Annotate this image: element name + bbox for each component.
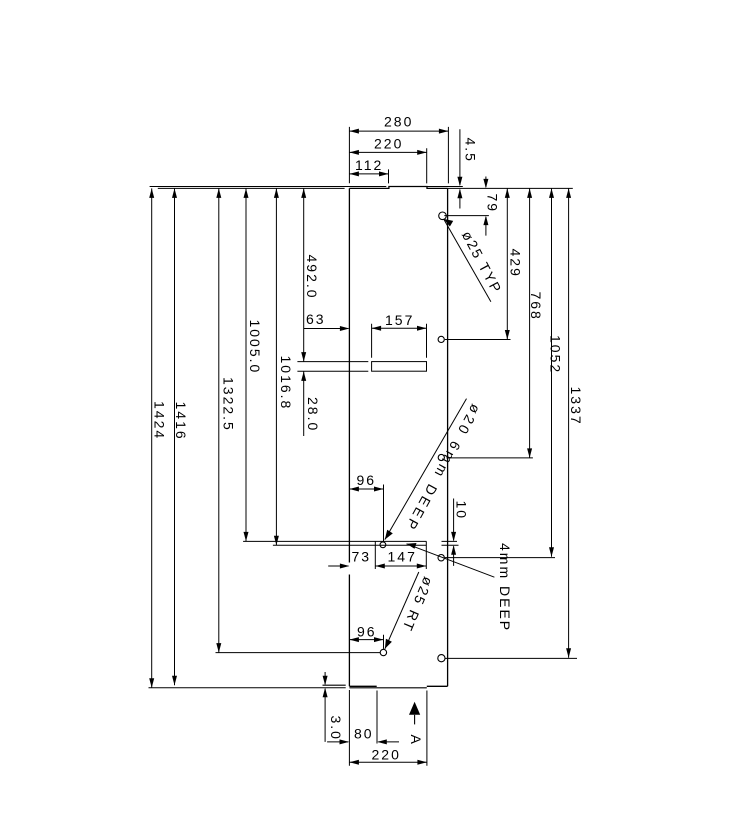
svg-text:492.0: 492.0 [304, 255, 320, 300]
svg-text:768: 768 [528, 292, 544, 321]
svg-text:96: 96 [357, 472, 377, 488]
panel left edge [348, 188, 350, 686]
svg-text:1337: 1337 [568, 387, 584, 426]
dim 157 line and extensions [372, 324, 427, 358]
svg-text:96: 96 [357, 624, 377, 640]
svg-text:1052: 1052 [547, 335, 563, 374]
hole H3 [438, 454, 444, 460]
hole H5 extension line [445, 557, 555, 559]
arrow dim 63 [340, 326, 350, 331]
hole H1 extension line [444, 215, 489, 217]
svg-text:28.0: 28.0 [305, 397, 321, 432]
leader Ø20 6mm DEEP [385, 399, 467, 540]
arrows dim 80 [340, 739, 350, 744]
slot rectangle [372, 362, 427, 372]
svg-text:4.5: 4.5 [463, 138, 479, 163]
svg-text:220: 220 [372, 747, 401, 763]
arrows dim 96 upper [349, 487, 359, 492]
arrows top dims 280/220/112 [349, 129, 359, 134]
top extension line at raised level [150, 186, 463, 188]
arrows right verticals at bottom [505, 330, 510, 340]
hole H2 extension line [445, 339, 511, 341]
dim 1052 line [551, 188, 553, 556]
arrows dim 3.0 [323, 676, 328, 686]
svg-text:4mm DEEP: 4mm DEEP [497, 543, 513, 632]
dim 112 line and extension [349, 169, 388, 183]
panel outline top edge (stepped) [349, 187, 447, 189]
svg-text:3.0: 3.0 [328, 716, 344, 741]
dim 1016.8 line [275, 188, 277, 545]
dim 80 left piece [327, 741, 348, 743]
arrow dim 73 [340, 564, 350, 569]
dim 1322.5 line [218, 188, 220, 652]
hole H7 [438, 655, 445, 662]
panel bottom edge (stepped) [349, 685, 447, 687]
svg-text:280: 280 [384, 114, 413, 130]
dim 429 line [506, 188, 508, 339]
svg-text:429: 429 [508, 249, 524, 278]
svg-text:220: 220 [374, 136, 403, 152]
dim 492.0 line [303, 188, 305, 361]
hole H2 [438, 336, 444, 342]
svg-text:79: 79 [484, 194, 500, 214]
hole H6 extension line left [216, 652, 381, 654]
svg-text:63: 63 [306, 311, 326, 327]
dim 96 lower line and extension [349, 635, 383, 649]
hole H3 extension line [446, 457, 533, 459]
panel right edge [447, 188, 449, 686]
arrows dim 157 [372, 326, 382, 331]
arrows dim 79 [483, 179, 488, 189]
groove line lower [273, 544, 459, 546]
hole H1 [439, 212, 447, 220]
leader arrowheads [444, 219, 454, 227]
groove line upper [243, 540, 457, 542]
leader Ø25 RT [385, 572, 419, 649]
svg-text:1416: 1416 [173, 402, 189, 441]
dim 1416 line [174, 188, 176, 685]
arrows left verticals at bottom [149, 678, 154, 688]
section arrow A stem [414, 715, 416, 725]
dim 220 bottom line and extensions [349, 690, 427, 766]
dim 96 upper line and extension [349, 485, 383, 542]
hole H6 [380, 649, 386, 655]
dim 147 line and box extensions [375, 541, 426, 569]
slot extension lines left [297, 362, 368, 372]
svg-text:1322.5: 1322.5 [221, 377, 237, 432]
hole H7 extension line [445, 657, 577, 659]
arrows dim 147 [375, 564, 385, 569]
arrows dim 220 bottom [349, 760, 359, 765]
dim 1005.0 line [245, 188, 247, 541]
hole H5 [438, 555, 444, 561]
dim 80 right piece [378, 741, 399, 743]
dim 220 line and extension [349, 148, 426, 183]
arrows dim 4.5 [457, 177, 462, 187]
dim 768 line [529, 188, 531, 458]
svg-text:1005.0: 1005.0 [247, 320, 263, 375]
leader 4mm DEEP [407, 544, 495, 577]
dim 1424 line [151, 188, 153, 687]
svg-text:157: 157 [385, 312, 414, 328]
dim 28.0 tail [303, 371, 305, 436]
svg-text:112: 112 [355, 157, 383, 173]
hole H4 [380, 542, 386, 548]
svg-text:80: 80 [354, 725, 374, 741]
bottom extension line long (1424) [149, 687, 346, 689]
dim 3.0 arrow tails [324, 672, 326, 742]
dim 63 line [304, 328, 348, 330]
arrow dim 28.0 [301, 371, 306, 381]
arrows six left verticals at top [149, 188, 154, 198]
dim 280 line and extensions [349, 127, 448, 183]
dim 79 arrow tails [485, 177, 487, 236]
leader Ø25 TYP [444, 219, 491, 302]
arrows dim 10 [451, 532, 456, 542]
arrows right verticals at top [505, 188, 510, 198]
top extension line at main level left [158, 187, 345, 189]
svg-text:73: 73 [352, 549, 372, 565]
bottom extension stub (1416) [323, 684, 346, 686]
section arrow A [409, 702, 420, 715]
dim 4.5 line [459, 129, 461, 208]
svg-text:10: 10 [453, 501, 469, 521]
dim 10 arrow tails [453, 499, 455, 566]
top extension line at main level right [448, 187, 573, 189]
panel bottom lower step line [349, 687, 426, 689]
dim 73 line [328, 565, 348, 567]
svg-text:A: A [408, 735, 424, 746]
dim 1337 line [568, 188, 570, 657]
svg-text:1016.8: 1016.8 [278, 356, 294, 411]
svg-text:147: 147 [388, 549, 417, 565]
svg-text:1424: 1424 [151, 401, 167, 440]
arrows dim 96 lower [349, 637, 359, 642]
